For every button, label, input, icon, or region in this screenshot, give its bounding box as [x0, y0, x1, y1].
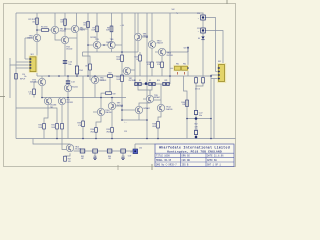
svg-text:1K5: 1K5	[32, 21, 35, 23]
svg-text:4K7: 4K7	[85, 66, 88, 68]
wire 0V bottom bus	[16, 138, 236, 140]
svg-text:FS1: FS1	[176, 63, 179, 65]
wire SK2 pin4	[211, 76, 219, 79]
resistor R19	[89, 64, 92, 70]
zobel C30	[93, 149, 98, 153]
wire TR11a base	[122, 109, 135, 111]
ground sym c31	[121, 158, 125, 160]
wire gnd stub c31	[122, 153, 124, 158]
wire TR6 base right	[115, 44, 122, 46]
wire sk1 pin1 run	[25, 58, 30, 60]
wire cap C22 tail	[195, 115, 197, 119]
svg-text:D3: D3	[149, 80, 151, 82]
svg-text:2SC2911: 2SC2911	[167, 55, 174, 57]
wire cap C23 feed	[195, 119, 197, 131]
wire R25 tail	[139, 61, 141, 76]
frame tick bottom	[151, 164, 153, 170]
wire TR4 emitter down	[64, 44, 66, 76]
wire x10 lower	[9, 65, 11, 98]
wire R33 tail	[82, 127, 84, 139]
capacitor C22	[194, 111, 197, 120]
transistor TR11	[158, 48, 165, 55]
diode row D1	[135, 82, 138, 85]
resistor R32	[61, 124, 64, 130]
wire TR5-TR6 link	[101, 44, 108, 46]
wire C15 tail	[33, 95, 35, 98]
wire TR12 collector up	[160, 84, 162, 104]
svg-text:∿: ∿	[176, 12, 178, 15]
svg-text:2SC2240: 2SC2240	[72, 87, 78, 89]
svg-text:ISS B: ISS B	[182, 163, 190, 166]
wire TR9 to TR12	[154, 99, 161, 101]
resistor R30	[43, 124, 46, 130]
wire R38 tail	[157, 128, 159, 139]
resistor R23	[151, 62, 154, 68]
transistor TR1	[51, 26, 58, 33]
wire TR6a emitter down	[94, 84, 96, 98]
transistor TR2	[71, 25, 78, 32]
wire ltp1 R tail	[43, 129, 45, 139]
svg-text:R5 390: R5 390	[41, 27, 48, 29]
wire col 147	[146, 13, 148, 139]
svg-text:D2: D2	[139, 80, 141, 82]
wire SK2 pin1	[219, 67, 224, 69]
svg-text:DRG No C-XR35-7: DRG No C-XR35-7	[156, 163, 177, 166]
svg-text:R46: R46	[108, 156, 111, 158]
svg-text:47u: 47u	[29, 94, 32, 96]
zobel R46	[107, 149, 112, 153]
svg-text:R45: R45	[81, 156, 84, 158]
wire zener stack mid	[202, 20, 204, 28]
svg-text:C30: C30	[93, 156, 96, 158]
wire C13 to TR	[67, 83, 69, 86]
wire col 122 mid	[121, 62, 123, 76]
wire TR9-TR11a link	[139, 103, 150, 107]
svg-text:C23: C23	[194, 129, 197, 131]
svg-text:Huntingdon, PE18 7DB ENGLAND: Huntingdon, PE18 7DB ENGLAND	[167, 149, 222, 153]
resistor R28b	[167, 82, 170, 85]
frame tick bottom 2	[117, 165, 119, 170]
svg-text:2SC5383: 2SC5383	[67, 102, 73, 104]
wire col 170	[169, 13, 171, 84]
wire TR8 base	[142, 36, 147, 38]
wire T11 base stub	[90, 79, 91, 81]
svg-text:D5 D6: D5 D6	[195, 89, 200, 91]
connector SK2	[217, 63, 226, 83]
wire TR11a emitter	[138, 114, 140, 120]
wire R31 tail	[56, 129, 58, 139]
wire TR11 emitter	[161, 56, 163, 62]
resistor R21	[121, 75, 124, 82]
wire R19 drop	[89, 70, 91, 80]
transistor TR5	[93, 41, 100, 48]
diode D4	[201, 36, 204, 39]
bias diode D5	[195, 78, 198, 84]
wire output run	[33, 139, 70, 146]
wire TR pair tail	[67, 92, 69, 139]
wire TR dr base	[116, 105, 122, 107]
zobel C31	[121, 149, 126, 153]
wire TR9 base	[143, 98, 146, 100]
wire TR out top	[100, 98, 102, 109]
svg-text:SHT 1 OF 1: SHT 1 OF 1	[207, 163, 221, 166]
svg-text:2SC3503: 2SC3503	[100, 80, 106, 82]
wire col 187	[184, 76, 188, 139]
svg-text:+→: +→	[124, 122, 127, 124]
wire diode to rail	[202, 40, 204, 76]
svg-text:TR13: TR13	[75, 146, 79, 148]
svg-text:TR10: TR10	[105, 110, 109, 112]
wire R35 tail	[111, 132, 113, 138]
wire SK2 pin2	[216, 71, 219, 73]
fuse FS2	[182, 66, 188, 70]
wire R22 down leg	[109, 77, 111, 92]
title block box	[155, 144, 234, 167]
wire R25 feed	[139, 52, 141, 55]
resistor R5	[42, 29, 49, 32]
wire bias stub2	[202, 76, 204, 78]
transistor TR pair mid	[64, 84, 71, 91]
wire stack out 2	[205, 31, 223, 69]
svg-text:APPD SW: APPD SW	[207, 159, 217, 162]
frame tick left	[0, 96, 5, 98]
wire mid rail	[37, 75, 211, 77]
resistor R38	[157, 122, 160, 129]
wire R31 feed	[16, 108, 57, 124]
wire col 83	[82, 76, 84, 121]
svg-text:C21: C21	[197, 28, 200, 30]
wire decouple link	[187, 118, 211, 120]
svg-text:220n: 220n	[121, 158, 125, 160]
wire fuse mid lead	[181, 67, 182, 69]
transistor TR10	[148, 41, 155, 48]
capacitor C11 input	[15, 74, 18, 80]
wire TR2 collector top	[76, 13, 78, 26]
wire TR2 emitter down col	[76, 33, 78, 66]
svg-text:SK2: SK2	[218, 61, 221, 63]
thermistor TH1	[75, 66, 78, 74]
transistor TR6	[108, 41, 115, 48]
svg-text:Wharfedale International Limit: Wharfedale International Limited	[159, 146, 230, 150]
svg-text:2SC5383: 2SC5383	[50, 105, 56, 107]
border frame	[4, 4, 236, 167]
transistor TR11a	[135, 106, 142, 113]
svg-text:TR1: TR1	[50, 107, 53, 109]
wire gnd stub c30	[94, 153, 96, 158]
wire col R1-TR3	[36, 13, 38, 34]
transistor TR5a	[38, 78, 45, 85]
svg-text:C31: C31	[121, 156, 124, 158]
svg-text:CHK DB: CHK DB	[182, 159, 191, 162]
resistor R31	[56, 124, 59, 130]
wire thermistor lead	[76, 74, 78, 76]
resistor R33	[82, 121, 85, 127]
transistor TR3	[33, 34, 40, 41]
svg-text:2SC2240: 2SC2240	[75, 149, 81, 151]
wire col main 122	[121, 13, 123, 55]
wire +rail top	[16, 12, 204, 14]
svg-text:INPUT: INPUT	[20, 79, 26, 81]
svg-text:MODEL XR-35: MODEL XR-35	[156, 159, 172, 162]
svg-text:TITLE 1000: TITLE 1000	[156, 155, 170, 158]
wire ltp1 tail	[44, 105, 48, 124]
svg-text:TR2: TR2	[67, 100, 70, 102]
svg-text:100u: 100u	[68, 64, 72, 66]
capacitor C12	[63, 61, 67, 63]
svg-text:1K: 1K	[136, 59, 138, 61]
ground sym c30	[93, 158, 97, 160]
transistor LTP2	[58, 97, 65, 104]
wire diode row	[134, 83, 170, 85]
transistor TR7 VAS	[123, 67, 130, 74]
resistor R6	[87, 22, 90, 28]
svg-text:0R22: 0R22	[90, 131, 94, 133]
wire L2 drop	[134, 144, 136, 149]
wire L2 to title edge	[135, 143, 155, 145]
svg-text:C32: C32	[139, 147, 142, 149]
svg-text:100n: 100n	[93, 158, 97, 160]
resistor R24	[161, 62, 164, 68]
wire TR out base	[93, 111, 97, 113]
svg-text:DRN GG: DRN GG	[182, 155, 191, 158]
capacitor C13	[66, 81, 70, 83]
svg-text:FS2: FS2	[183, 63, 186, 65]
wire col R8-TR6	[111, 13, 113, 41]
svg-text:2SC2240: 2SC2240	[60, 31, 66, 33]
wire TR11 collector	[166, 52, 188, 76]
transistor TR9	[146, 95, 153, 102]
wire TR11 base	[155, 51, 158, 53]
svg-text:R28: R28	[165, 80, 168, 82]
wire zener stack low	[202, 33, 204, 36]
resistor R7	[96, 26, 99, 32]
wire TR6col drop	[83, 52, 91, 64]
wire col 122 low	[121, 82, 123, 121]
wire TR10 emitter	[151, 48, 153, 62]
wire TR dr top	[111, 98, 113, 103]
resistor R3	[64, 19, 67, 25]
wire diode row loop	[138, 86, 152, 90]
wire ltp2 R tail	[61, 129, 63, 139]
zobel R45	[80, 149, 85, 153]
resistor R28	[163, 82, 166, 85]
wire TR7 base	[122, 70, 123, 72]
wire R5 leads	[37, 29, 42, 31]
wire output row	[74, 150, 133, 152]
diode row D2	[139, 82, 142, 85]
fuse pin marks red	[178, 72, 185, 75]
svg-text:DATE 21.8.96: DATE 21.8.96	[207, 155, 224, 158]
fuse FS1	[173, 65, 189, 71]
svg-text:R26: R26	[157, 80, 160, 82]
wire SK2 pin3	[211, 75, 219, 76]
wire bias bottom loop	[196, 83, 203, 86]
wire TR10 top	[151, 13, 153, 41]
bias diode D6	[202, 78, 205, 84]
resistor R20	[121, 55, 124, 62]
svg-text:R22: R22	[108, 73, 111, 75]
wire TR6 emitter	[111, 49, 113, 52]
wire TR out emitter	[96, 116, 101, 128]
transistor driver TR9a	[108, 102, 115, 109]
wire sk1 pin2 run	[16, 61, 30, 63]
wire zener stack top	[202, 13, 204, 15]
resistor R29 h	[106, 92, 112, 95]
wire col 214	[213, 79, 215, 139]
resistor R25	[139, 55, 142, 61]
diode row D3	[149, 82, 152, 85]
wire TR1 top	[54, 13, 56, 26]
wire TR12 emitter	[158, 112, 161, 122]
title block row line 3	[155, 161, 234, 163]
transistor TR13 out	[66, 144, 73, 151]
wire TR6a base	[99, 79, 104, 81]
resistor R34	[95, 128, 98, 133]
electrolytic C21	[201, 28, 206, 33]
svg-text:L2: L2	[130, 151, 132, 153]
transistor output TR	[97, 108, 104, 115]
wire TR5a base	[34, 82, 38, 89]
junction diode row	[145, 82, 148, 85]
transistor TR4	[61, 36, 68, 43]
electrolytic C20	[201, 15, 206, 20]
title block row line 2	[155, 157, 234, 159]
resistor R40	[186, 100, 189, 107]
wire fuse right lead	[187, 67, 190, 69]
wire R23 low lead	[151, 68, 153, 77]
wire R29 left lead	[101, 93, 106, 97]
wire TR8 emitter	[137, 41, 139, 52]
wire TR2 base	[65, 28, 71, 30]
wire stack out 1	[205, 18, 215, 72]
svg-text:C14: C14	[22, 74, 25, 76]
wire TR4 right	[69, 37, 77, 39]
wire cap C22 feed	[195, 86, 197, 111]
wire TR5 base	[88, 44, 93, 46]
svg-text:2SC5383: 2SC5383	[90, 37, 96, 39]
transistor TR12	[157, 104, 164, 111]
inductor L2 out	[133, 149, 138, 154]
svg-text:1K2: 1K2	[83, 25, 86, 27]
svg-text:D4: D4	[198, 38, 200, 40]
wire fuse left lead	[170, 67, 175, 69]
svg-text:R47: R47	[68, 159, 71, 161]
capacitor C15	[33, 89, 36, 95]
wire sk1 pin4 run	[16, 67, 30, 69]
svg-text:R2 2K2: R2 2K2	[28, 19, 36, 21]
wire T11 top stub	[94, 75, 96, 77]
svg-text:2SC5383: 2SC5383	[106, 42, 112, 44]
title block row line 1	[155, 152, 234, 154]
svg-text:12K: 12K	[60, 22, 63, 24]
wire col R3-TR4	[64, 13, 66, 36]
wire col R6	[87, 13, 89, 76]
wire TR5a top	[41, 76, 43, 78]
wire ltp2 tail	[61, 105, 63, 124]
wire TR13 emitter	[65, 153, 70, 156]
resistor R47	[64, 156, 67, 161]
wire bias stubs	[195, 76, 197, 78]
wire TR2 right to R6 col	[79, 28, 88, 30]
wire TR9 top	[149, 90, 151, 95]
transistor LTP1	[44, 97, 51, 104]
wire cap C23 tail	[195, 135, 197, 139]
wire col R7-TR5	[96, 13, 98, 41]
wire R24 low lead	[161, 68, 163, 77]
supply arrow tap	[187, 46, 189, 52]
wire R34 tail	[95, 132, 97, 138]
resistor R2	[36, 18, 39, 24]
svg-text:4R7: 4R7	[81, 158, 84, 160]
title block col line 1	[180, 153, 182, 166]
wire sk1 pin3 run	[10, 58, 30, 65]
wire TR3 base	[25, 37, 33, 39]
wire TR dr emitter	[111, 110, 113, 128]
wire col 211 down	[210, 79, 212, 139]
wire TR7 collector	[131, 69, 135, 71]
wire base drop to SK1 pin1	[24, 38, 26, 59]
svg-text:0R22: 0R22	[106, 131, 110, 133]
wire TR5 emitter	[96, 49, 98, 52]
transistor TR6a	[91, 76, 98, 83]
resistor R26	[153, 82, 156, 85]
svg-text:R29: R29	[113, 94, 116, 96]
wire col TR8 top	[137, 13, 139, 33]
svg-text:2SC5171: 2SC5171	[117, 105, 124, 107]
paper background	[0, 0, 240, 171]
wire TR5a emitter down	[41, 86, 43, 98]
svg-text:C19: C19	[124, 131, 127, 133]
connector SK1	[29, 55, 38, 73]
resistor R35	[111, 128, 114, 133]
wire out TR13 feed	[62, 139, 66, 150]
transistor TR8	[134, 33, 141, 40]
wire left bus	[15, 13, 17, 139]
resistor R22 rail series	[108, 75, 113, 78]
svg-text:SK1: SK1	[31, 54, 34, 56]
resistor R8	[110, 26, 113, 32]
svg-text:C20: C20	[197, 13, 200, 15]
title block col line 2	[205, 153, 207, 166]
svg-text:100n: 100n	[199, 115, 203, 117]
wire TR1 emitter to TR4 base	[55, 34, 61, 40]
wire vi limiter link	[122, 119, 147, 121]
wire C13 top	[67, 76, 69, 81]
wire nfb node	[42, 97, 126, 99]
svg-text:R42: R42	[194, 124, 197, 126]
wire mirror node	[83, 51, 139, 53]
svg-text:2SC2240: 2SC2240	[66, 49, 72, 51]
capacitor C23	[194, 131, 197, 139]
frame tick top	[226, 0, 228, 4]
svg-text:D1: D1	[134, 80, 136, 82]
wire TR3 collector	[36, 42, 38, 76]
wire col 135	[134, 13, 136, 84]
